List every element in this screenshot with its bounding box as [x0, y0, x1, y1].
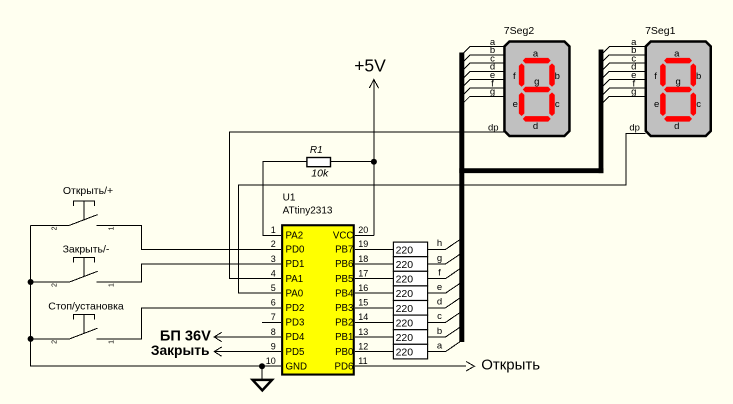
svg-text:Открыть/+: Открыть/+ [63, 185, 113, 197]
7Seg2 digit segments [519, 58, 555, 122]
svg-text:7Seg2: 7Seg2 [504, 25, 535, 37]
bus segment display1 vertical [599, 50, 604, 174]
svg-text:6: 6 [271, 298, 276, 308]
svg-text:2: 2 [52, 283, 59, 287]
svg-text:PD1: PD1 [286, 259, 305, 270]
wire resistor e to bus [428, 282, 462, 293]
svg-text:+5V: +5V [354, 56, 386, 76]
svg-text:PB7: PB7 [335, 245, 353, 256]
wire R1 left to pin1 [263, 162, 307, 236]
wire pin11 PD6 to Otkryt arrow [355, 365, 466, 367]
svg-text:1: 1 [109, 283, 116, 287]
ground symbol triangle [253, 380, 272, 391]
svg-text:PD6: PD6 [335, 361, 354, 372]
svg-text:dp: dp [488, 123, 499, 134]
svg-text:b: b [696, 71, 701, 82]
svg-text:b: b [555, 71, 560, 82]
resistor R1 10k [307, 145, 331, 180]
power +5V symbol [369, 80, 378, 236]
svg-text:13: 13 [358, 327, 368, 337]
wire 7Seg1 pin a [601, 47, 645, 55]
svg-text:e: e [654, 99, 659, 110]
wire pin14 to R220 [355, 321, 394, 323]
svg-text:16: 16 [358, 283, 368, 293]
7Seg1 digit segments [660, 58, 696, 122]
wire 7Seg1 pin b [601, 55, 645, 63]
svg-text:PD4: PD4 [286, 332, 305, 343]
wire resistor d to bus [428, 297, 462, 308]
wire 7Seg2 dp to pin4 [229, 132, 504, 278]
node junction +5V / R1 / VCC [371, 159, 377, 165]
svg-text:VCC: VCC [333, 231, 353, 242]
svg-text:PD0: PD0 [286, 245, 305, 256]
svg-text:18: 18 [358, 254, 368, 264]
wire 7Seg2 pin f [462, 88, 504, 96]
U1 left pin labels [286, 231, 308, 373]
node junction rail-S3 [28, 336, 34, 342]
svg-text:220: 220 [396, 332, 414, 344]
svg-text:d: d [674, 121, 679, 132]
svg-text:10: 10 [266, 356, 276, 366]
svg-text:b: b [437, 326, 442, 337]
svg-text:PD2: PD2 [286, 303, 305, 314]
svg-text:10k: 10k [311, 168, 329, 180]
U1 pin numbers 1-10 [266, 225, 276, 366]
svg-text:1: 1 [271, 225, 276, 235]
wire resistor b to bus [428, 326, 462, 337]
wire pin16 to R220 [355, 292, 394, 294]
svg-text:d: d [533, 121, 538, 132]
svg-text:2: 2 [52, 340, 59, 344]
svg-text:19: 19 [358, 239, 368, 249]
svg-text:PB6: PB6 [335, 259, 353, 270]
svg-text:g: g [534, 76, 539, 87]
7Seg2 segment letters [513, 48, 560, 132]
svg-text:Закрыть/-: Закрыть/- [63, 243, 110, 255]
svg-text:c: c [696, 99, 701, 110]
svg-text:220: 220 [396, 347, 414, 359]
svg-text:PB0: PB0 [335, 347, 354, 358]
svg-text:4: 4 [271, 268, 276, 278]
svg-text:f: f [438, 267, 441, 278]
svg-text:PD3: PD3 [286, 318, 305, 329]
wire switch S2 to U1 [97, 264, 282, 282]
svg-text:g: g [437, 253, 442, 264]
switch S1 left wire [31, 224, 70, 226]
bus segment display2 vertical [459, 53, 464, 343]
svg-text:c: c [437, 311, 442, 322]
switch S3 button actuator [74, 314, 95, 319]
svg-text:5: 5 [271, 283, 276, 293]
wire pin15 to R220 [355, 307, 394, 309]
svg-text:220: 220 [396, 317, 414, 329]
svg-text:1: 1 [109, 226, 116, 230]
svg-text:f: f [654, 71, 657, 82]
svg-text:d: d [437, 297, 442, 308]
svg-text:a: a [674, 48, 680, 59]
svg-text:220: 220 [396, 274, 414, 286]
svg-text:a: a [533, 48, 539, 59]
svg-text:PB1: PB1 [335, 332, 353, 343]
switch S1 button actuator [74, 201, 95, 206]
svg-text:a: a [437, 340, 443, 351]
switch S1 lever [70, 215, 98, 226]
wire 7Seg2 pin c [462, 63, 504, 71]
node junction rail-S2 [28, 279, 34, 285]
svg-text:dp: dp [629, 123, 640, 134]
U1 pin numbers 20-11 [358, 225, 368, 366]
wire pin17 to R220 [355, 278, 394, 280]
svg-text:PA0: PA0 [286, 288, 304, 299]
wire 7Seg2 pin b [462, 55, 504, 63]
wire 7Seg1 pin d [601, 71, 645, 79]
wire switch S3 to U1 [97, 308, 282, 339]
svg-text:R1: R1 [310, 145, 323, 156]
wire pin9 to Zakryt arrow [214, 351, 281, 353]
svg-text:PA2: PA2 [286, 231, 304, 242]
svg-text:11: 11 [358, 356, 367, 366]
svg-text:12: 12 [358, 341, 368, 351]
IC U1 ATtiny2313 body [282, 225, 354, 374]
svg-text:15: 15 [358, 298, 368, 308]
wire 7Seg2 pin a [462, 47, 504, 55]
svg-text:e: e [437, 282, 442, 293]
net labels h..a [437, 238, 443, 351]
svg-text:c: c [555, 99, 560, 110]
wire pin13 to R220 [355, 336, 394, 338]
wire pin20 VCC stub [355, 234, 374, 236]
wire 7Seg1 pin c [601, 63, 645, 71]
wire switch S1 to U1 [97, 225, 282, 249]
svg-text:7Seg1: 7Seg1 [645, 25, 676, 37]
7Seg1 segment letters [654, 48, 701, 132]
switch S2 left wire [31, 281, 70, 283]
7Seg1 pin letters [629, 37, 640, 134]
svg-text:7: 7 [271, 312, 276, 322]
wire 7Seg1 pin g [601, 96, 645, 104]
wire ground rail left [31, 225, 282, 366]
svg-text:220: 220 [396, 259, 414, 271]
svg-text:17: 17 [358, 268, 368, 278]
svg-text:GND: GND [286, 361, 308, 372]
wire resistor g to bus [428, 253, 462, 264]
wire pin19 to R220 [355, 248, 394, 250]
U1 right pin labels [333, 231, 354, 373]
svg-text:U1: U1 [283, 192, 296, 203]
svg-text:ATtiny2313: ATtiny2313 [283, 206, 333, 217]
wire pin8 to BP36V arrow [214, 336, 281, 338]
svg-text:220: 220 [396, 244, 414, 256]
7Seg2 pin letters [488, 37, 499, 134]
svg-text:g: g [490, 87, 495, 98]
svg-text:14: 14 [358, 312, 368, 322]
svg-text:f: f [513, 71, 516, 82]
wire 7Seg1 dp to pin5 [239, 134, 646, 294]
switch S3 lever [70, 328, 98, 339]
svg-text:PB2: PB2 [335, 318, 353, 329]
svg-text:g: g [631, 87, 636, 98]
svg-text:Закрыть: Закрыть [151, 343, 210, 358]
resistor network 220 ohm x8 [393, 242, 427, 359]
wire 7Seg2 pin d [462, 71, 504, 79]
svg-text:8: 8 [271, 327, 276, 337]
svg-text:PB4: PB4 [335, 288, 354, 299]
wire pin18 to R220 [355, 263, 394, 265]
wire resistor a to bus [428, 341, 462, 352]
switch S1 contact numbers [52, 226, 116, 230]
switch S2 contact numbers [52, 283, 116, 287]
svg-text:PB5: PB5 [335, 274, 353, 285]
switch S3 contact numbers [52, 340, 116, 344]
svg-text:g: g [675, 76, 680, 87]
wire 7Seg1 pin e [601, 80, 645, 88]
svg-text:PD5: PD5 [286, 347, 305, 358]
bus segment horizontal branch [459, 168, 603, 173]
ground symbol stem [261, 366, 263, 380]
svg-text:2: 2 [271, 239, 276, 249]
wire 7Seg2 pin e [462, 80, 504, 88]
svg-text:PB3: PB3 [335, 303, 353, 314]
svg-text:1: 1 [109, 340, 116, 344]
svg-text:20: 20 [358, 225, 368, 235]
svg-text:9: 9 [271, 341, 276, 351]
svg-text:h: h [437, 238, 442, 249]
wire pin12 to R220 [355, 351, 394, 353]
svg-text:220: 220 [396, 303, 414, 315]
wire 7Seg2 pin g [462, 96, 504, 104]
svg-text:3: 3 [271, 254, 276, 264]
wire resistor c to bus [428, 311, 462, 322]
switch S3 left wire [31, 338, 70, 340]
wire resistor f to bus [428, 268, 462, 279]
svg-text:220: 220 [396, 288, 414, 300]
wire 7Seg1 pin f [601, 88, 645, 96]
wire R1 right to +5V node [331, 161, 374, 163]
svg-text:PA1: PA1 [286, 274, 304, 285]
svg-text:Открыть: Открыть [481, 357, 540, 374]
wire pin7 stub [262, 321, 281, 323]
switch S2 button actuator [74, 258, 95, 263]
svg-text:2: 2 [52, 226, 59, 230]
switch S2 lever [70, 271, 98, 282]
svg-text:Стоп/установка: Стоп/установка [48, 300, 124, 312]
node junction ground [259, 363, 265, 369]
wire resistor h to bus [428, 238, 462, 249]
svg-text:e: e [513, 99, 518, 110]
